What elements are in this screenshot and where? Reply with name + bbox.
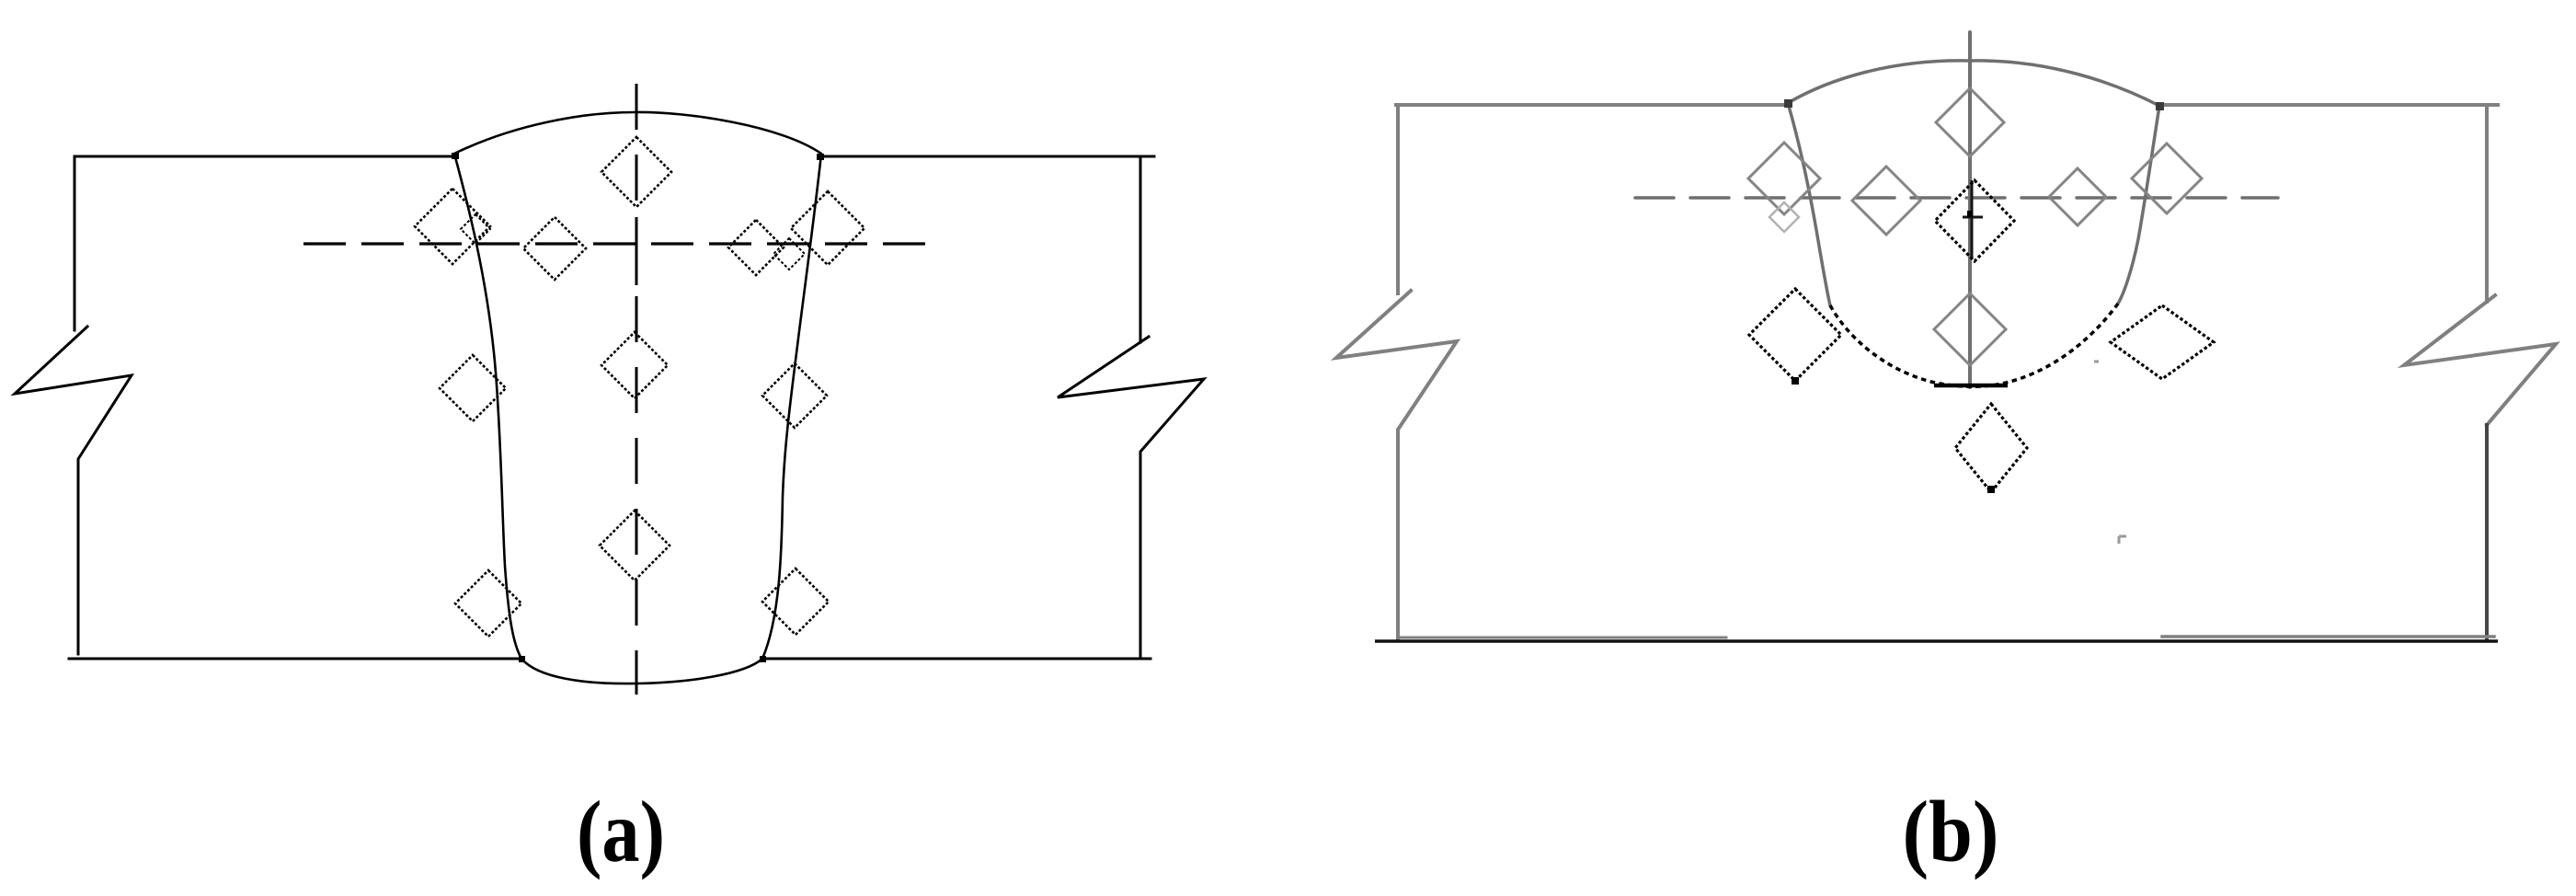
svg-text:(b): (b) — [1903, 783, 1999, 880]
svg-text:(a): (a) — [577, 783, 665, 880]
